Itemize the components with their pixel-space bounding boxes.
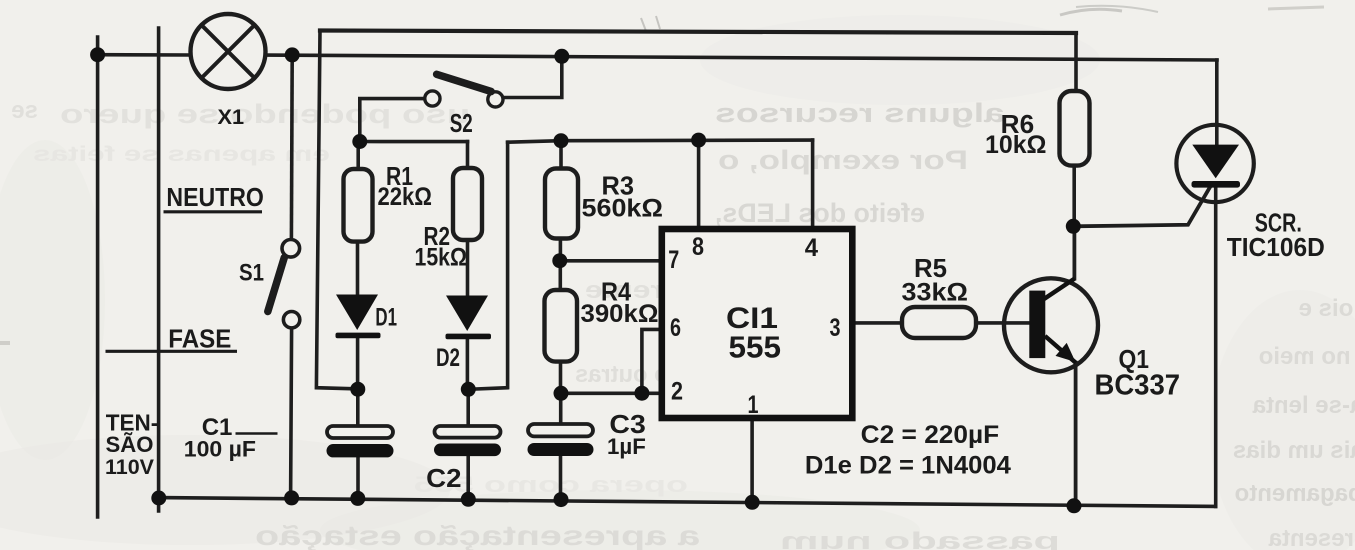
svg-text:passado num: passado num (780, 528, 1060, 550)
svg-text:D1: D1 (375, 304, 397, 332)
svg-text:10kΩ: 10kΩ (985, 131, 1047, 159)
svg-text:BC337: BC337 (1095, 370, 1181, 402)
svg-text:O pagamento: O pagamento (1235, 480, 1355, 507)
svg-text:100 µF: 100 µF (184, 437, 256, 462)
svg-text:efeito dos LEDs,: efeito dos LEDs, (715, 198, 925, 228)
svg-text:na-se lenta: na-se lenta (1252, 392, 1355, 419)
svg-text:8: 8 (692, 233, 704, 261)
svg-text:t ois e: t ois e (1299, 295, 1355, 322)
svg-text:uso podendo se quero: uso podendo se quero (60, 99, 470, 129)
svg-text:22kΩ: 22kΩ (378, 183, 433, 211)
svg-text:3: 3 (830, 314, 841, 342)
svg-text:1µF: 1µF (607, 434, 646, 459)
svg-text:FASE: FASE (168, 324, 231, 354)
svg-text:C2 = 220µF: C2 = 220µF (861, 421, 1000, 449)
svg-text:1: 1 (748, 391, 759, 419)
svg-text:o no meio: o no meio (1259, 343, 1355, 370)
svg-text:em apenas se feitas: em apenas se feitas (33, 143, 330, 166)
svg-text:4: 4 (805, 234, 818, 262)
svg-text:D2: D2 (436, 344, 460, 372)
svg-text:15kΩ: 15kΩ (415, 244, 468, 272)
svg-text:apresenta: apresenta (1268, 525, 1355, 550)
svg-text:D1e D2 = 1N4004: D1e D2 = 1N4004 (805, 452, 1011, 480)
svg-text:C2: C2 (426, 463, 461, 493)
svg-text:2: 2 (671, 378, 683, 406)
svg-text:555: 555 (729, 330, 782, 365)
svg-text:a apresentação estação: a apresentação estação (255, 520, 700, 550)
svg-text:S2: S2 (450, 108, 473, 138)
svg-text:SÃO: SÃO (106, 432, 154, 457)
svg-text:33kΩ: 33kΩ (902, 279, 969, 307)
svg-text:alguns recursos: alguns recursos (715, 98, 1005, 128)
svg-text:6: 6 (670, 314, 681, 342)
svg-text:560kΩ: 560kΩ (582, 195, 664, 223)
svg-text:se: se (11, 97, 38, 124)
svg-text:S1: S1 (239, 260, 264, 287)
svg-text:NEUTRO: NEUTRO (166, 182, 264, 212)
svg-text:X1: X1 (218, 106, 245, 129)
svg-text:TIC106D: TIC106D (1227, 232, 1325, 262)
svg-text:mais um dias: mais um dias (1233, 437, 1355, 464)
svg-text:7: 7 (668, 246, 679, 274)
svg-text:390kΩ: 390kΩ (581, 300, 659, 328)
svg-text:Por exemplo, o: Por exemplo, o (718, 145, 968, 175)
svg-text:110V: 110V (105, 456, 154, 479)
